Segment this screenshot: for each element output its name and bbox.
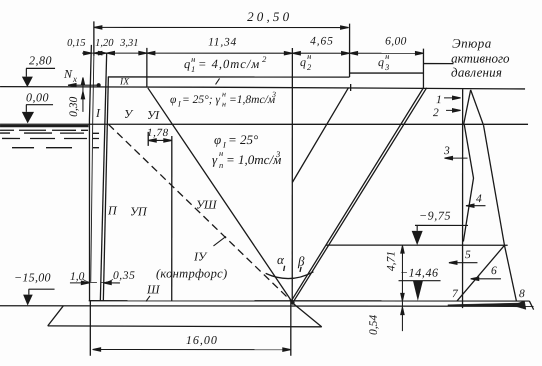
svg-text:4: 4 (476, 193, 482, 205)
svg-text:0,15: 0,15 (67, 38, 85, 49)
svg-text:п: п (219, 160, 223, 170)
svg-text:3,31: 3,31 (119, 38, 138, 49)
svg-text:н: н (222, 89, 226, 98)
svg-text:3: 3 (384, 62, 389, 72)
svg-text:1: 1 (191, 64, 195, 74)
svg-text:Ш: Ш (146, 282, 161, 296)
svg-text:IХ: IХ (119, 77, 130, 87)
svg-text:= 25°: = 25° (228, 132, 258, 147)
svg-text:1: 1 (436, 94, 442, 106)
svg-text:0,30: 0,30 (68, 97, 80, 117)
svg-text:1,20: 1,20 (95, 38, 114, 49)
svg-text:П: П (107, 203, 118, 217)
svg-text:н: н (219, 148, 223, 158)
svg-text:0,00: 0,00 (26, 90, 49, 104)
svg-text:11,34: 11,34 (208, 36, 237, 48)
svg-text:н: н (191, 54, 195, 64)
svg-text:α: α (277, 252, 285, 267)
svg-text:УI: УI (147, 108, 160, 122)
svg-text:= 1,0тс/м: = 1,0тс/м (226, 152, 281, 167)
svg-text:−9,75: −9,75 (419, 209, 451, 223)
svg-text:16,00: 16,00 (186, 333, 218, 347)
svg-text:УП: УП (130, 204, 148, 218)
svg-text:4,71: 4,71 (385, 251, 397, 271)
svg-text:УШ: УШ (196, 197, 218, 211)
svg-text:−14,46: −14,46 (400, 266, 439, 280)
svg-text:γ: γ (212, 152, 218, 167)
svg-text:q: q (184, 57, 190, 71)
svg-text:3: 3 (443, 145, 450, 157)
svg-text:н: н (307, 51, 311, 61)
svg-text:2: 2 (433, 107, 439, 119)
svg-text:−15,00: −15,00 (14, 270, 51, 284)
svg-text:φ: φ (170, 94, 177, 106)
svg-text:н: н (385, 51, 389, 61)
svg-text:2,80: 2,80 (29, 53, 52, 67)
svg-text:q: q (378, 55, 384, 69)
svg-text:= 4,0тс/м: = 4,0тс/м (198, 57, 260, 71)
svg-text:н: н (222, 99, 226, 108)
svg-text:20,50: 20,50 (247, 9, 292, 24)
svg-text:= 25°; γ: = 25°; γ (182, 94, 220, 106)
svg-text:8: 8 (519, 288, 525, 300)
svg-text:β: β (297, 254, 305, 269)
svg-text:6: 6 (491, 265, 497, 277)
svg-text:3: 3 (275, 149, 280, 159)
svg-text:(контрфорс): (контрфорс) (156, 266, 227, 280)
svg-text:0,35: 0,35 (113, 270, 136, 282)
svg-text:Эпюра: Эпюра (452, 36, 492, 51)
svg-text:x: x (72, 74, 77, 84)
svg-text:давления: давления (451, 65, 502, 80)
svg-text:3: 3 (271, 90, 276, 99)
svg-text:I: I (177, 99, 181, 108)
svg-text:=1,8тс/м: =1,8тс/м (229, 94, 276, 106)
svg-text:q: q (300, 55, 306, 69)
svg-text:5: 5 (465, 249, 471, 261)
svg-text:4,65: 4,65 (310, 36, 334, 48)
svg-text:IУ: IУ (193, 249, 208, 263)
svg-text:активного: активного (451, 51, 510, 66)
svg-text:1,78: 1,78 (147, 127, 169, 139)
svg-text:6,00: 6,00 (385, 36, 407, 48)
svg-text:N: N (63, 67, 73, 81)
svg-text:1,0: 1,0 (70, 271, 85, 283)
svg-text:0,54: 0,54 (368, 315, 380, 335)
svg-text:φ: φ (214, 132, 221, 147)
